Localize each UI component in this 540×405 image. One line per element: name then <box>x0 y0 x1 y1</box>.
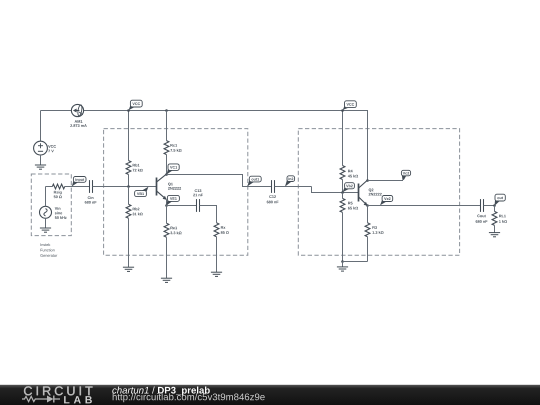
junction out <box>493 204 496 207</box>
wire R3 to stage2 ground <box>343 261 368 263</box>
ground <box>40 228 51 232</box>
wire VCC source riser <box>40 111 42 142</box>
wire C12 to stage 2 <box>275 186 312 188</box>
junction collector Q2 <box>366 179 369 182</box>
transistor Q1 2N2222 <box>156 178 158 196</box>
wire Vin to ground <box>45 218 47 228</box>
wire C13 to Rx <box>200 206 217 223</box>
resistor Rsig <box>52 184 64 189</box>
resistor R4 45k <box>342 111 344 166</box>
logo resistor-diode symbol <box>22 396 39 401</box>
resistor R3 1.3k <box>367 206 369 223</box>
junction emitter Q1 <box>165 204 168 207</box>
voltage source Vin sine <box>40 206 52 218</box>
ground <box>211 272 222 276</box>
junction Rb1 rail <box>127 109 130 112</box>
capacitor C13 21nF <box>196 199 198 212</box>
node flag in2 <box>285 179 292 186</box>
wire Cin to base node <box>93 186 157 188</box>
resistor Rc1 7.5k <box>165 109 168 112</box>
transistor Q2 2N2222 <box>358 184 360 202</box>
junction R4 rail <box>341 109 344 112</box>
footer text <box>112 387 148 394</box>
node flag Vb2 <box>343 187 350 193</box>
ground <box>161 278 172 282</box>
CircuitLab logo <box>24 386 92 395</box>
wire jog into base Q2 <box>312 187 359 193</box>
junction stage2 ground <box>341 260 344 263</box>
node flag input <box>72 180 79 186</box>
stage 1 enclosure box <box>104 129 248 256</box>
ammeter AM1 <box>71 104 83 116</box>
wire emitter Q2 to Cout <box>368 205 481 207</box>
wire Cout to out node <box>484 205 495 207</box>
node flag VCC <box>129 105 136 111</box>
ground <box>123 267 134 271</box>
wire Vin to Rsig <box>45 187 47 207</box>
capacitor Cin 680nF <box>89 180 91 193</box>
junction collector Q1 <box>165 173 168 176</box>
junction base divider <box>127 185 130 188</box>
ground <box>35 165 46 169</box>
stage 2 enclosure box <box>298 129 459 256</box>
voltage source VCC 7V <box>34 141 48 155</box>
junction base divider Q2 <box>341 191 344 194</box>
ground <box>489 233 500 237</box>
wire collector Q2 to Vc2 <box>368 180 404 182</box>
node flag Vc2 <box>402 174 407 181</box>
capacitor Cout 680nF <box>480 199 482 212</box>
resistor Re1 3.3k <box>166 206 168 224</box>
resistor Rx 85ohm <box>214 223 219 237</box>
ground <box>337 267 348 271</box>
wire emitter to C13 <box>167 205 197 207</box>
capacitor C12 680nF <box>271 180 273 193</box>
resistor R5 65k <box>342 193 344 199</box>
resistor Rb2 31k <box>128 187 130 205</box>
node flag VCC <box>343 105 350 110</box>
node flag VB1 <box>142 187 149 193</box>
node flag out <box>495 199 500 206</box>
resistor Rb1 72k <box>128 111 130 161</box>
function generator enclosure box <box>31 174 71 236</box>
wire Rsig to Cin <box>65 186 90 188</box>
node flag VE1 <box>166 199 172 205</box>
node flag VC1 <box>167 168 173 174</box>
node flag Ve2 <box>380 199 387 205</box>
wire collector Q1 to out1 <box>167 175 272 187</box>
node flag out1 <box>247 180 254 187</box>
junction emitter Q2 <box>366 204 369 207</box>
wire rail drop to collector Q2 <box>367 111 369 181</box>
wire VCC source to ground <box>40 155 42 165</box>
wire VCC top rail <box>41 110 72 112</box>
resistor RL1 1k <box>494 206 496 212</box>
text Instek Function Generator <box>41 243 51 246</box>
